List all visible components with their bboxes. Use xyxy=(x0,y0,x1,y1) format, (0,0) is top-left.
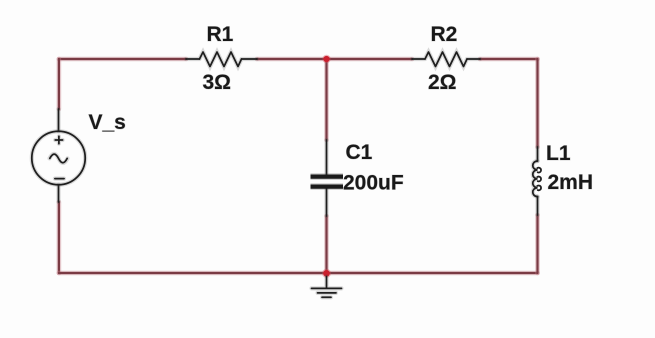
inductor L1 xyxy=(533,147,541,215)
wire top middle horizontal (R1 to R2 through top node) xyxy=(257,57,412,62)
wire left vertical upper (corner to V_s) xyxy=(57,59,62,109)
wire top-left horizontal (left corner to R1) xyxy=(59,57,186,62)
svg-text:L1: L1 xyxy=(546,142,571,165)
svg-text:2Ω: 2Ω xyxy=(428,71,457,94)
svg-text:200uF: 200uF xyxy=(343,172,404,195)
svg-text:R2: R2 xyxy=(431,23,458,46)
wire top-right horizontal (R2 to right corner) xyxy=(480,57,538,62)
svg-text:R1: R1 xyxy=(207,23,234,46)
resistor R2 xyxy=(412,52,480,67)
wire middle vertical lower (C1 to bottom node) xyxy=(324,216,329,273)
voltage source V_s xyxy=(32,109,85,202)
capacitor C1 xyxy=(311,140,344,216)
ground xyxy=(312,277,342,298)
wire right vertical upper (corner to L1) xyxy=(535,59,540,147)
wire middle vertical upper (top node to C1) xyxy=(324,59,329,140)
node junction bottom (red dot) xyxy=(322,269,331,278)
node junction top (red dot) xyxy=(322,55,330,63)
svg-text:2mH: 2mH xyxy=(548,171,594,194)
svg-text:C1: C1 xyxy=(346,141,373,164)
resistor R1 xyxy=(186,52,257,67)
wire left vertical lower (V_s to bottom corner) xyxy=(57,202,62,273)
wire bottom horizontal xyxy=(59,271,538,276)
wire right vertical lower (L1 to bottom corner) xyxy=(535,215,540,273)
svg-text:3Ω: 3Ω xyxy=(203,71,232,94)
svg-text:V_s: V_s xyxy=(89,111,126,134)
